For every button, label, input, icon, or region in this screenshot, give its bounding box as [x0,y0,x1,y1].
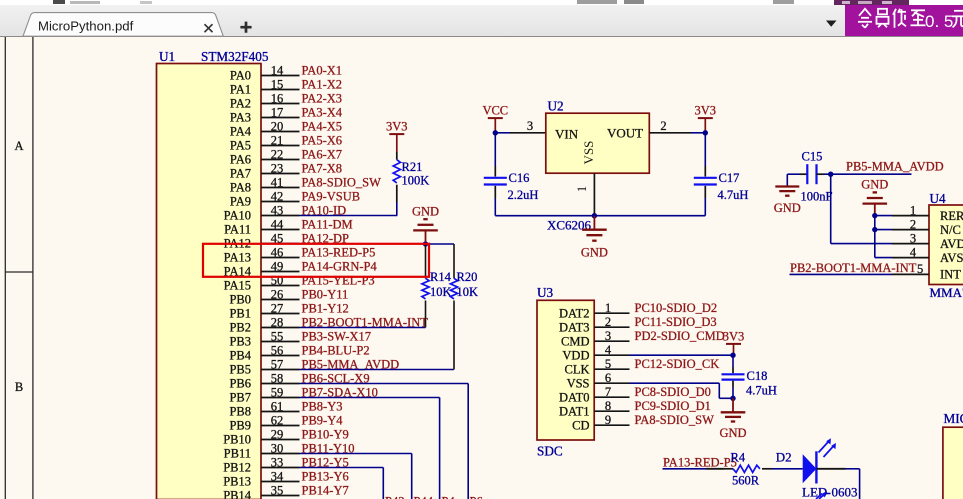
svg-text:R4: R4 [731,451,746,465]
U1 pin 41 PA8 [230,175,300,194]
svg-text:PB4-BLU-P2: PB4-BLU-P2 [302,343,370,357]
resistor R21 [393,152,429,202]
svg-text:PA2-X3: PA2-X3 [302,91,343,105]
svg-text:DAT0: DAT0 [559,390,590,404]
U4 pin 5 INT [892,262,961,281]
capacitor C16 [484,133,539,202]
svg-text:2: 2 [605,315,611,329]
svg-text:1: 1 [910,203,916,217]
U4 pin 1 RERD [892,203,963,222]
svg-text:PB7: PB7 [229,391,251,405]
svg-text:PA9: PA9 [230,195,251,209]
svg-text:PA0: PA0 [230,69,251,83]
node VDD junction [730,353,735,358]
svg-text:INT: INT [940,268,961,282]
wire PB11-Y10 [300,454,412,499]
svg-text:PA5-X6: PA5-X6 [302,133,343,147]
svg-text:21: 21 [271,133,284,147]
wire VSS to gnd [630,383,734,398]
svg-text:MMA766: MMA766 [930,285,963,300]
U1 pin 34 PB13 [223,469,299,488]
svg-text:34: 34 [271,469,284,483]
resistor R14 [422,244,452,310]
svg-text:PB0-Y11: PB0-Y11 [302,287,349,301]
svg-text:62: 62 [271,413,284,427]
svg-text:PA15: PA15 [224,279,251,293]
node C18 bottom junction [730,396,735,401]
svg-text:46: 46 [271,245,284,259]
U1 pin 33 PB12 [223,455,299,474]
svg-text:P6: P6 [470,495,483,499]
svg-text:MIC: MIC [944,411,963,426]
node U4 gnd junction 2 [872,227,877,232]
svg-text:PB8-Y3: PB8-Y3 [302,399,343,413]
power VCC [482,104,508,133]
U1 pin 59 PB7 [229,385,299,404]
svg-text:R14: R14 [430,270,452,284]
U1 pin 23 PA7 [230,161,300,180]
U1 pin 21 PA5 [230,133,300,152]
svg-text:10K: 10K [457,285,479,299]
svg-text:27: 27 [271,301,284,315]
svg-text:PA11-DM: PA11-DM [302,217,353,231]
svg-text:4.7uH: 4.7uH [718,188,749,202]
wire INT net [790,273,893,275]
svg-text:4.7uH: 4.7uH [746,384,777,398]
diode D2 LED [803,438,836,483]
svg-text:GND: GND [861,178,888,192]
svg-text:20: 20 [271,119,284,133]
wire VDD to 3V3 [630,354,734,356]
node junction R14/R20 [423,241,428,246]
U3 pin 5 CLK [565,357,630,376]
svg-text:U2: U2 [548,99,564,114]
svg-text:AVDD: AVDD [940,237,963,251]
next led fragment [816,494,824,499]
U1 pin 15 PA1 [230,77,300,96]
svg-text:3: 3 [605,329,611,343]
svg-text:A: A [14,139,23,153]
node VSS junction [592,213,597,218]
svg-text:PB11: PB11 [224,447,251,461]
wire junction to R20 [426,243,455,245]
svg-text:PA2: PA2 [230,97,251,111]
wire PA10-ID [300,215,398,217]
svg-text:P4: P4 [442,495,456,499]
svg-text:C15: C15 [802,150,823,164]
U3 pin 4 VDD [562,343,629,362]
svg-text:PB12: PB12 [223,461,251,475]
svg-text:PA14-GRN-P4: PA14-GRN-P4 [302,259,378,273]
svg-text:56: 56 [271,343,284,357]
ground (C15) [774,187,801,216]
svg-text:LED: LED [802,485,827,499]
wire R21 to PA10-ID [396,202,398,216]
svg-text:C18: C18 [747,369,768,383]
U3 pin 7 DAT0 [559,385,630,404]
svg-text:PA6: PA6 [230,153,251,167]
U1 pin 22 PA6 [230,147,300,166]
svg-text:PB2: PB2 [229,321,251,335]
svg-text:PB5-MMA_AVDD: PB5-MMA_AVDD [846,160,944,174]
svg-text:6: 6 [605,371,611,385]
svg-text:43: 43 [271,203,284,217]
U1 pin 56 PB4 [229,343,299,362]
svg-text:PA0-X1: PA0-X1 [302,63,343,77]
svg-text:P44: P44 [414,495,434,499]
svg-text:PB4: PB4 [229,349,251,363]
resistor R20 [450,244,478,310]
svg-text:PB6: PB6 [229,377,251,391]
U1 pin 14 PA0 [230,63,300,82]
U1 pin 16 PA2 [230,91,300,110]
svg-text:3: 3 [910,231,916,245]
svg-text:PA4-X5: PA4-X5 [302,119,343,133]
svg-text:1: 1 [605,301,611,315]
connector MIC body [943,427,963,499]
resistor R4 [724,451,772,488]
svg-text:15: 15 [271,77,284,91]
IC U2 XC6206 regulator body [546,113,650,173]
U1 pin 17 PA3 [230,105,300,124]
U1 pin 28 PB2 [229,315,299,334]
svg-text:2: 2 [910,217,916,231]
svg-text:30: 30 [271,441,284,455]
svg-text:PB10-Y9: PB10-Y9 [302,427,349,441]
svg-text:PA13-RED-P5: PA13-RED-P5 [302,245,376,259]
svg-text:560R: 560R [732,474,760,488]
U3 pin 2 DAT3 [559,315,630,334]
svg-text:0603: 0603 [832,485,858,499]
svg-text:28: 28 [271,315,284,329]
svg-text:P43: P43 [385,495,404,499]
bottom clipped pin numbers [385,495,483,499]
U1 pin 20 PA4 [230,119,300,138]
svg-text:1: 1 [575,186,589,192]
svg-text:33: 33 [271,455,284,469]
svg-text:0. 5: 0. 5 [925,12,953,31]
svg-text:PA8-SDIO_SW: PA8-SDIO_SW [635,413,715,427]
svg-text:5: 5 [917,262,923,276]
U4 pin 4 AVSS [892,245,963,264]
svg-text:49: 49 [271,259,284,273]
svg-text:PA4: PA4 [230,125,252,139]
U1 pin 44 PA11 [224,217,299,236]
svg-text:PB1: PB1 [229,307,251,321]
svg-text:CD: CD [572,418,589,432]
wire R14 to PB2 row [425,310,427,328]
svg-text:17: 17 [271,105,284,119]
wire VCC to VIN [495,132,510,134]
svg-text:50: 50 [271,273,284,287]
svg-text:PB13: PB13 [223,475,251,489]
svg-text:PA13-RED-P5: PA13-RED-P5 [663,455,737,469]
node 3V3 junction [703,130,708,135]
svg-text:RERD: RERD [940,209,963,223]
svg-text:VSS: VSS [567,376,590,390]
U2 pin 2 [649,119,691,133]
svg-text:22: 22 [271,147,284,161]
wire R4 to D2 [772,468,803,470]
capacitor C15 [800,150,833,204]
svg-text:N/C: N/C [940,223,961,237]
svg-text:VSS: VSS [581,141,596,165]
U2 pin 3 [510,119,546,133]
wire PB7-SDA-X10 [300,398,440,499]
svg-text:PA8-SDIO_SW: PA8-SDIO_SW [302,175,382,189]
U2 pin 1 VSS stem [575,173,594,216]
svg-text:PA1-X2: PA1-X2 [302,77,343,91]
svg-text:PB10: PB10 [223,433,251,447]
svg-text:2.2uH: 2.2uH [508,188,539,202]
svg-text:PB2-BOOT1-MMA-INT: PB2-BOOT1-MMA-INT [790,261,917,275]
svg-text:D2: D2 [776,450,792,465]
wire U4 gnd rail [875,213,892,258]
D2 value LED-0603 [802,485,858,499]
wire AVDD down to U4 pin 3 [831,174,892,243]
svg-text:U1: U1 [159,49,175,64]
svg-text:U4: U4 [930,191,947,206]
U1 pin 35 PB14 [223,483,299,499]
svg-text:DAT1: DAT1 [559,404,590,418]
svg-text:PA11: PA11 [224,223,251,237]
svg-text:PB5: PB5 [229,363,251,377]
svg-text:3V3: 3V3 [723,329,745,343]
wire C15 left to ground [787,174,800,186]
svg-text:3V3: 3V3 [695,104,717,118]
svg-text:PA5: PA5 [230,139,251,153]
svg-text:U3: U3 [537,285,554,300]
node VCC junction [493,130,498,135]
svg-text:26: 26 [271,287,284,301]
U1 pin 46 PA13 [224,245,300,264]
svg-text:59: 59 [271,385,284,399]
svg-text:35: 35 [271,483,284,497]
svg-text:VOUT: VOUT [607,126,643,141]
U3 pin 8 DAT1 [559,399,630,418]
power 3V3 (SDC) [723,329,745,355]
U1 pin 43 PA10 [224,203,300,222]
IC U1 STM32F405 body [157,64,262,499]
svg-text:PC12-SDIO_CK: PC12-SDIO_CK [635,357,720,371]
wire PB12-Y5 [300,468,384,499]
wire D2 cathode [816,469,859,499]
svg-text:5: 5 [605,357,611,371]
wire VOUT to 3V3 [691,132,705,134]
node U4 gnd junction 1 [872,213,877,218]
wire PB2-BOOT1-MMA-INT [300,327,426,329]
svg-text:61: 61 [271,399,284,413]
svg-text:PB3-SW-X17: PB3-SW-X17 [302,329,371,343]
svg-text:42: 42 [271,189,284,203]
svg-text:GND: GND [774,201,801,215]
svg-text:PB1-Y12: PB1-Y12 [302,301,349,315]
tab MicroPython.pdf [0,0,260,38]
U1 pin 50 PA15 [224,273,300,292]
U1 pin 29 PB10 [223,427,299,446]
svg-text:R20: R20 [457,270,478,284]
svg-text:3V3: 3V3 [386,120,408,134]
U1 pin 45 PA12 [224,231,300,250]
svg-text:PA15-YEL-P3: PA15-YEL-P3 [302,273,375,287]
node C15 junction [828,172,833,177]
svg-text:23: 23 [271,161,284,175]
svg-text:41: 41 [271,175,284,189]
U1 pin 58 PB6 [229,371,299,390]
svg-text:R21: R21 [402,160,423,174]
highlight box PA13/PA14 [203,244,429,277]
svg-text:PA3-X4: PA3-X4 [302,105,343,119]
wire U2 bottom rail [495,198,705,216]
svg-text:8: 8 [605,399,611,413]
purple promo button 会员低至0.5元 [845,5,963,36]
svg-text:CMD: CMD [561,334,589,348]
U4 pin 3 AVDD [892,231,963,250]
svg-text:PA8: PA8 [230,181,251,195]
svg-text:PC9-SDIO_D1: PC9-SDIO_D1 [635,399,711,413]
power 3V3 (U2 out) [695,104,717,133]
ground (U4) [861,178,888,214]
svg-text:MicroPython.pdf: MicroPython.pdf [38,19,134,34]
svg-text:PA3: PA3 [230,111,251,125]
tab bar [0,5,963,37]
svg-text:PA10: PA10 [224,209,251,223]
svg-text:CLK: CLK [565,362,590,376]
svg-text:3: 3 [527,119,533,133]
svg-text:PC8-SDIO_D0: PC8-SDIO_D0 [635,385,711,399]
svg-text:GND: GND [719,426,746,440]
U1 pin 57 PB5 [229,357,299,376]
svg-text:GND: GND [412,204,439,218]
svg-text:57: 57 [271,357,284,371]
U3 pin 9 CD [572,413,629,432]
svg-text:PA9-VSUB: PA9-VSUB [302,189,361,203]
svg-text:PB8: PB8 [229,405,251,419]
power 3V3 (R21 pull-up) [386,120,408,153]
U3 pin 3 CMD [561,329,629,348]
svg-text:AVSS: AVSS [940,251,963,265]
svg-text:DAT3: DAT3 [559,320,590,334]
new tab + button [230,15,260,39]
U3 pin 1 DAT2 [559,301,630,320]
svg-text:4: 4 [605,343,612,357]
ground (SDC) [719,398,746,440]
connector U3 body [537,300,594,440]
svg-text:PA7: PA7 [230,167,251,181]
wire R20 to PB5 row [453,310,455,370]
U3 pin 6 VSS [567,371,630,390]
wire led net [663,468,724,470]
svg-text:58: 58 [271,371,284,385]
wire PB5-MMA_AVDD [300,369,454,371]
svg-text:PB9-Y4: PB9-Y4 [302,413,344,427]
U4 pin 2 N/C [892,217,961,236]
U1 pin 61 PB8 [229,399,299,418]
browser top strip [0,0,963,5]
svg-text:VDD: VDD [562,348,589,362]
svg-text:GND: GND [581,246,608,260]
svg-text:STM32F405: STM32F405 [201,49,269,64]
svg-text:7: 7 [605,385,611,399]
U1 pin 26 PB0 [229,287,299,306]
sheet frame border column [5,37,33,499]
wire C15 right to AVDD net [824,173,912,175]
U1 pin 62 PB9 [229,413,299,432]
dropdown arrow [820,16,844,32]
svg-text:C16: C16 [509,171,530,185]
svg-text:55: 55 [271,329,284,343]
svg-text:PA13: PA13 [224,251,251,265]
svg-text:100nF: 100nF [801,190,833,204]
U1 pin 42 PA9 [230,189,300,208]
svg-text:100K: 100K [402,174,430,188]
U1 pin 49 PA14 [224,259,300,278]
svg-text:PC11-SDIO_D3: PC11-SDIO_D3 [635,315,717,329]
svg-text:VIN: VIN [555,127,579,142]
svg-text:B: B [15,380,23,394]
svg-text:PB9: PB9 [229,419,251,433]
svg-text:4: 4 [910,245,917,259]
svg-text:44: 44 [271,217,284,231]
svg-text:DAT2: DAT2 [559,306,590,320]
U1 pin 55 PB3 [229,329,299,348]
svg-text:9: 9 [605,413,611,427]
svg-text:PA6-X7: PA6-X7 [302,147,343,161]
svg-text:PA7-X8: PA7-X8 [302,161,343,175]
svg-text:PB14-Y7: PB14-Y7 [302,483,349,497]
svg-text:10K: 10K [430,285,452,299]
svg-text:PB3: PB3 [229,335,251,349]
ground (R14/R20 top) [412,204,439,241]
svg-text:SDC: SDC [537,444,563,459]
svg-text:PC10-SDIO_D2: PC10-SDIO_D2 [635,301,718,315]
svg-text:14: 14 [271,63,284,77]
svg-text:PD2-SDIO_CMD: PD2-SDIO_CMD [635,329,725,343]
ground (U2) [581,216,608,260]
svg-text:VCC: VCC [482,104,508,118]
wire PB6-SCL-X9 [300,384,469,499]
svg-text:PB13-Y6: PB13-Y6 [302,469,349,483]
U1 pin 27 PB1 [229,301,299,320]
capacitor C18 [722,355,777,398]
svg-text:PB14: PB14 [223,489,252,499]
U1 pin 30 PB11 [224,441,300,460]
svg-text:PA1: PA1 [230,83,251,97]
svg-text:2: 2 [660,119,666,133]
capacitor C17 [694,133,749,202]
top purple toolbar fragment [834,0,909,5]
svg-text:PB0: PB0 [229,293,251,307]
svg-text:16: 16 [271,91,284,105]
IC U4 MMA7660 body [929,205,963,285]
svg-text:29: 29 [271,427,284,441]
svg-text:C17: C17 [719,171,740,185]
